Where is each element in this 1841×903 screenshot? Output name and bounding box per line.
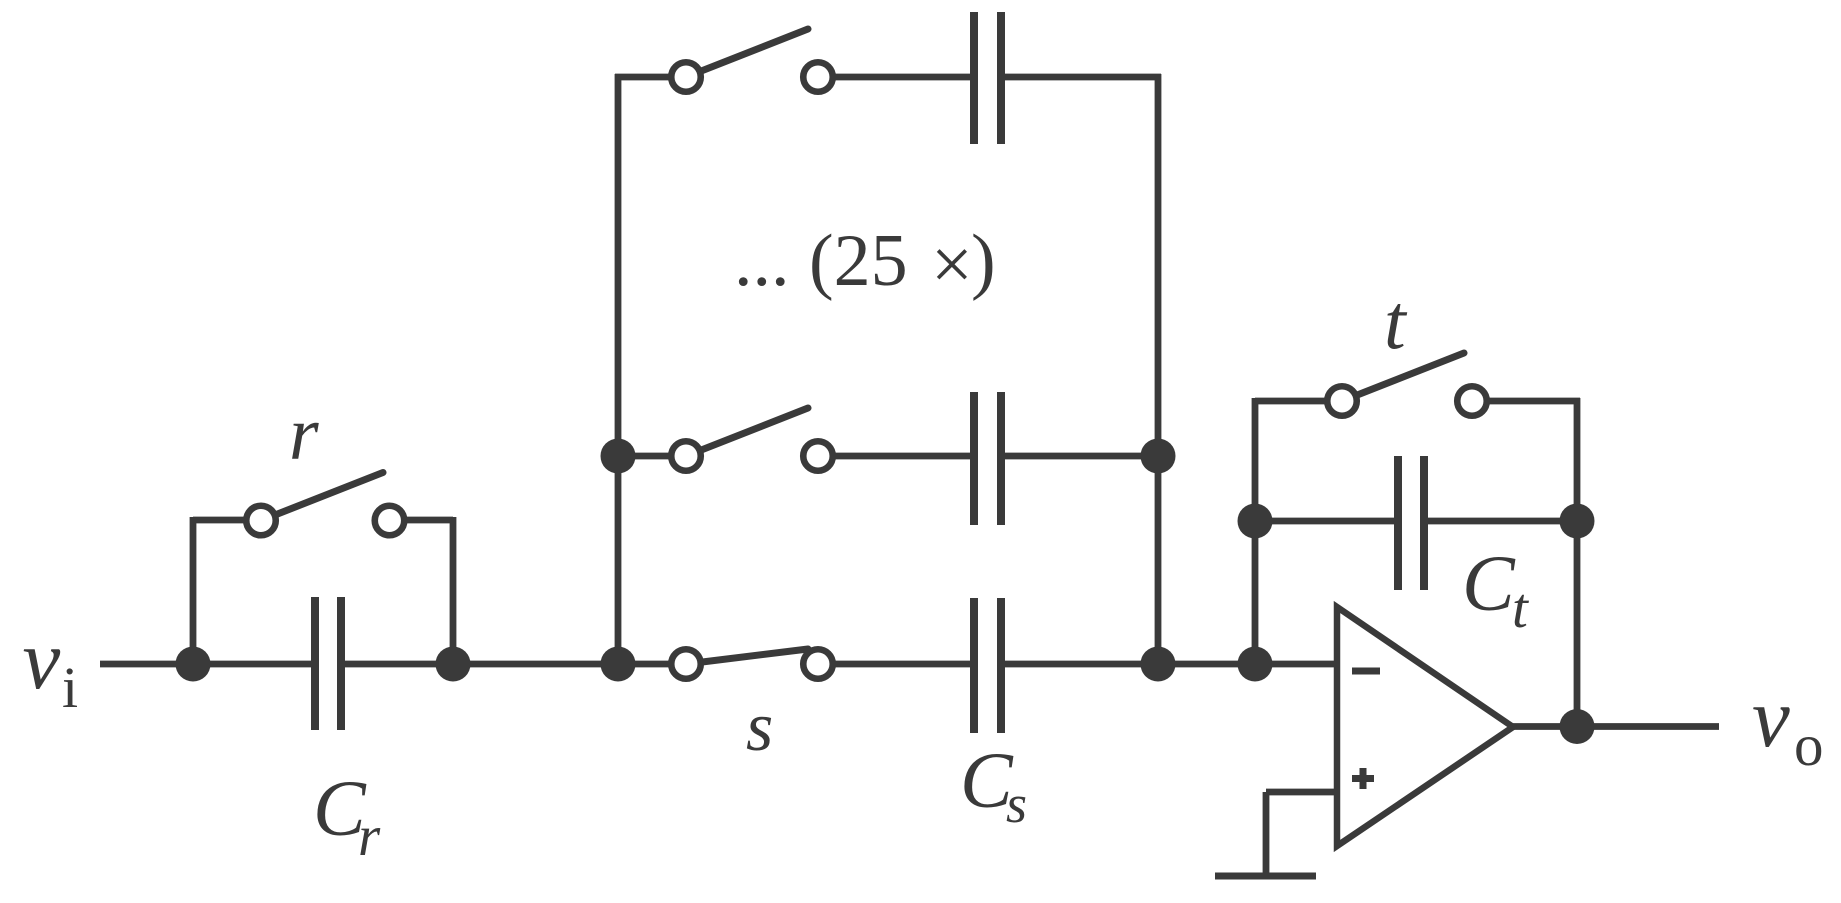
svg-text:r: r <box>289 392 319 476</box>
svg-text:×: × <box>931 224 973 306</box>
svg-text:o: o <box>1794 712 1824 778</box>
svg-text:s: s <box>1006 774 1027 834</box>
svg-text:...: ... <box>734 220 790 302</box>
svg-text:t: t <box>1512 577 1529 640</box>
svg-text:i: i <box>62 655 78 720</box>
svg-text:v: v <box>23 613 61 707</box>
svg-text:t: t <box>1384 278 1408 365</box>
svg-text:): ) <box>971 220 996 302</box>
svg-text:(25: (25 <box>809 220 908 302</box>
svg-text:v: v <box>1752 671 1790 765</box>
svg-text:s: s <box>746 689 773 766</box>
svg-text:r: r <box>358 805 381 868</box>
svg-text:C: C <box>1462 541 1516 628</box>
